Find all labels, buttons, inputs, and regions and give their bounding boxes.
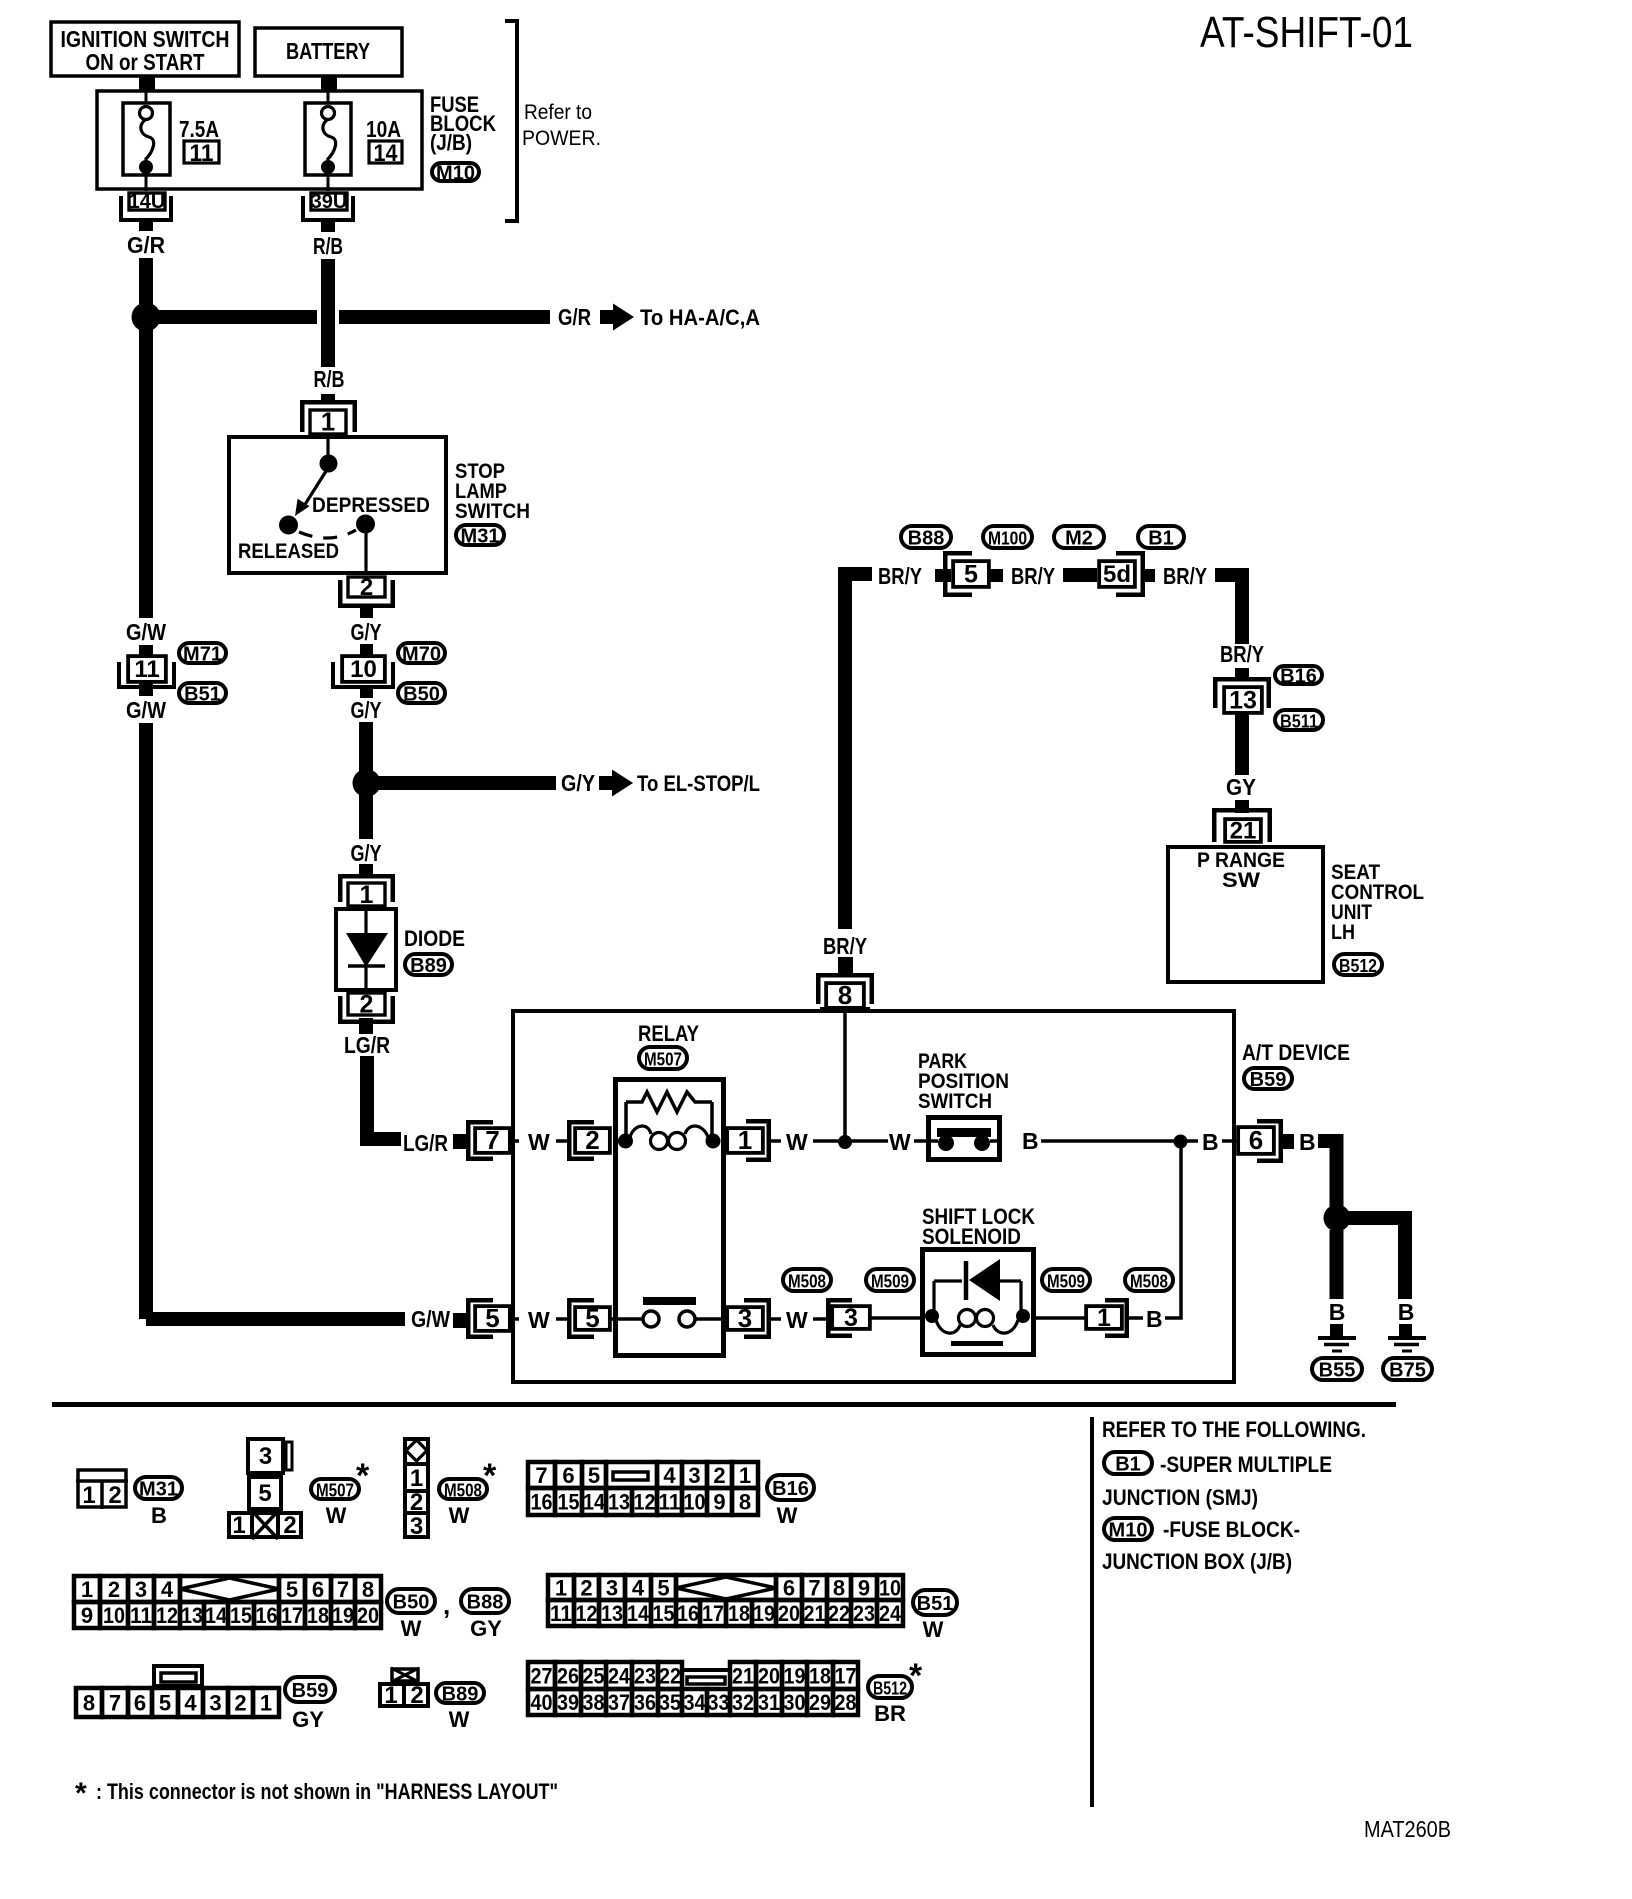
svg-text:5: 5 <box>286 1577 298 1602</box>
svg-text:B: B <box>1202 1129 1219 1155</box>
svg-text:18: 18 <box>307 1603 329 1628</box>
wire G/Y vertical to diode <box>359 722 373 839</box>
connector ref B59 oval <box>1244 1068 1292 1091</box>
svg-text:W: W <box>449 1503 470 1528</box>
wire W between connector 5 and relay pin 5 <box>511 1307 567 1333</box>
junction dot ground branch <box>1324 1205 1351 1232</box>
wire tab above diode connector 1 <box>359 864 373 876</box>
svg-text:B89: B89 <box>410 955 447 977</box>
svg-text:M509: M509 <box>1047 1271 1085 1292</box>
connector ref B511 oval <box>1275 710 1323 732</box>
svg-text:SWITCH: SWITCH <box>455 500 530 523</box>
label GY <box>1226 774 1256 800</box>
svg-text:35: 35 <box>659 1690 681 1715</box>
svg-text:7: 7 <box>808 1575 820 1600</box>
wire tab after connector 5 SMJ <box>990 569 1003 582</box>
svg-text:9: 9 <box>858 1575 870 1600</box>
label LG/R at A/T device <box>403 1130 448 1156</box>
svg-text:13: 13 <box>181 1603 203 1628</box>
svg-text:24: 24 <box>608 1663 631 1688</box>
label RELAY <box>638 1021 699 1046</box>
svg-text:B1: B1 <box>1115 1454 1141 1476</box>
label LG/R below diode <box>344 1032 390 1058</box>
connector ref B1 oval refer <box>1104 1452 1152 1476</box>
svg-text:W: W <box>786 1129 808 1155</box>
connector ref B16 oval bottom <box>767 1475 814 1500</box>
svg-text:7: 7 <box>535 1463 547 1488</box>
svg-text:B88: B88 <box>467 1592 504 1614</box>
svg-text:20: 20 <box>357 1603 379 1628</box>
svg-text:B: B <box>151 1503 167 1528</box>
svg-text:RELEASED: RELEASED <box>238 540 339 563</box>
relay coil and resistor <box>613 1092 721 1150</box>
svg-text:M100: M100 <box>988 528 1027 549</box>
svg-text:B: B <box>1022 1128 1039 1154</box>
svg-text:19: 19 <box>753 1601 775 1626</box>
label DEPRESSED <box>312 494 430 517</box>
svg-text:B89: B89 <box>442 1684 479 1706</box>
svg-text:POWER.: POWER. <box>522 127 601 150</box>
svg-text:5: 5 <box>657 1575 669 1600</box>
svg-text:*: * <box>75 1777 87 1810</box>
svg-text:2: 2 <box>360 574 373 601</box>
svg-text:M31: M31 <box>139 1479 178 1501</box>
label SHIFT LOCK SOLENOID <box>922 1204 1035 1249</box>
label A/T DEVICE <box>1242 1040 1350 1065</box>
svg-text:14: 14 <box>583 1489 606 1514</box>
connector ref M31 oval <box>456 525 504 548</box>
svg-text:33: 33 <box>708 1690 730 1715</box>
svg-text:20: 20 <box>778 1601 800 1626</box>
label GY under B88 <box>470 1616 502 1641</box>
connector ref M31 oval bottom <box>135 1477 182 1501</box>
label W under B51 <box>923 1617 944 1642</box>
svg-text:G/W: G/W <box>411 1306 450 1332</box>
label DIODE <box>404 926 465 951</box>
svg-text:3: 3 <box>209 1690 221 1715</box>
wire W between connector 7 and relay pin 2 <box>511 1129 567 1155</box>
svg-text:11: 11 <box>550 1601 572 1626</box>
inline connector 11 M71/B51 <box>119 655 174 687</box>
star M508 <box>483 1457 497 1495</box>
connector ref B55 oval <box>1312 1358 1362 1382</box>
svg-text:17: 17 <box>702 1601 724 1626</box>
svg-text:B51: B51 <box>184 684 221 706</box>
svg-text:20: 20 <box>758 1663 780 1688</box>
label GY under B59 <box>292 1707 324 1732</box>
connector face B89 <box>380 1668 428 1709</box>
svg-text:39U: 39U <box>311 191 348 213</box>
svg-text:19: 19 <box>332 1603 354 1628</box>
connector ref B89 oval <box>405 954 452 977</box>
svg-text:37: 37 <box>608 1690 630 1715</box>
ignition switch box <box>51 22 239 76</box>
connector ref B51 oval bottom <box>913 1590 957 1615</box>
wire W between relay pin 3 and M508 pin 3 <box>771 1307 826 1333</box>
svg-text:23: 23 <box>634 1663 656 1688</box>
star B512 <box>909 1657 923 1695</box>
svg-text:11: 11 <box>659 1489 681 1514</box>
label G/Y above diode <box>351 840 382 866</box>
svg-text:GY: GY <box>470 1616 502 1641</box>
svg-text:M71: M71 <box>183 644 222 666</box>
svg-text:13: 13 <box>601 1601 623 1626</box>
wire tab into stop lamp switch pin 1 <box>321 394 335 404</box>
svg-text:3: 3 <box>135 1577 147 1602</box>
svg-text:M508: M508 <box>788 1271 826 1292</box>
ground symbol B75 <box>1388 1324 1426 1351</box>
svg-text:2: 2 <box>585 1125 599 1155</box>
wire R/B vertical from 39U <box>321 222 335 367</box>
svg-text:5d: 5d <box>1103 561 1131 588</box>
connector ref B59 oval bottom <box>285 1677 335 1702</box>
connector 1 M508/M509 <box>1086 1300 1127 1336</box>
svg-text:4: 4 <box>663 1463 676 1488</box>
svg-text:W: W <box>786 1307 808 1333</box>
svg-text:B: B <box>1398 1299 1415 1325</box>
svg-text:AT-SHIFT-01: AT-SHIFT-01 <box>1200 8 1413 57</box>
svg-text:*: * <box>483 1457 497 1495</box>
label G/W below connector 11 <box>120 696 172 723</box>
connector ref B512 oval bottom <box>868 1676 912 1699</box>
svg-text:G/Y: G/Y <box>351 619 382 645</box>
wire from solenoid to connector 1 <box>1036 1316 1085 1320</box>
svg-text:14: 14 <box>627 1601 650 1626</box>
label R/B <box>307 232 349 259</box>
wire tab battery to fuse block <box>321 76 337 90</box>
svg-text:BR: BR <box>874 1701 906 1726</box>
svg-text:B: B <box>1146 1306 1163 1332</box>
svg-text:5: 5 <box>159 1690 171 1715</box>
svg-text:16: 16 <box>256 1603 278 1628</box>
svg-text:-FUSE BLOCK-: -FUSE BLOCK- <box>1163 1517 1300 1542</box>
label G/R <box>121 231 171 258</box>
wire BR/Y corner down to connector 8 <box>838 567 872 929</box>
svg-text:4: 4 <box>161 1577 174 1602</box>
seat control unit box <box>1168 847 1323 982</box>
connector 1 relay <box>727 1121 769 1160</box>
svg-text:G/Y: G/Y <box>351 840 382 866</box>
svg-text:M508: M508 <box>1130 1271 1168 1292</box>
svg-text:G/R: G/R <box>127 232 165 258</box>
svg-text:5: 5 <box>588 1463 600 1488</box>
svg-text:B55: B55 <box>1319 1360 1356 1382</box>
svg-text:3: 3 <box>410 1513 423 1540</box>
svg-text:8: 8 <box>838 980 852 1010</box>
separator line <box>52 1402 1396 1407</box>
label R/B above stop lamp switch <box>314 366 345 392</box>
svg-text:To EL-STOP/L: To EL-STOP/L <box>637 771 760 796</box>
svg-text:3: 3 <box>844 1304 858 1332</box>
svg-text:5: 5 <box>585 1303 599 1333</box>
svg-text:21: 21 <box>732 1663 754 1688</box>
stop lamp switch box M31 <box>229 437 446 573</box>
connector ref B50 oval bottom <box>387 1589 435 1614</box>
svg-text:1: 1 <box>260 1690 272 1715</box>
ground symbol B55 <box>1318 1324 1356 1351</box>
connector face B16 <box>528 1462 758 1515</box>
svg-text:DEPRESSED: DEPRESSED <box>312 494 430 517</box>
wire tab above connector 8 <box>838 957 853 976</box>
svg-text:1: 1 <box>410 1465 423 1492</box>
connector ref B75 oval <box>1383 1358 1432 1382</box>
svg-text:M507: M507 <box>644 1049 682 1070</box>
svg-text:22: 22 <box>659 1663 681 1688</box>
svg-text:B: B <box>1299 1129 1316 1155</box>
svg-text:1: 1 <box>81 1577 93 1602</box>
svg-text:LG/R: LG/R <box>344 1032 390 1058</box>
connector 5 relay <box>569 1300 610 1337</box>
junction dot solenoid return <box>1174 1135 1188 1149</box>
svg-text:13: 13 <box>608 1489 630 1514</box>
svg-text:1: 1 <box>321 407 335 437</box>
svg-text:BATTERY: BATTERY <box>286 38 370 64</box>
connector face M508 <box>403 1439 430 1540</box>
svg-text:M508: M508 <box>444 1480 482 1501</box>
label BR/Y above connector 13 <box>1220 641 1264 667</box>
connector ref B50 oval <box>398 683 445 706</box>
stop lamp switch internal contacts <box>279 435 375 575</box>
wire to solenoid <box>871 1316 920 1320</box>
label RELEASED <box>238 540 339 563</box>
connector face M507 <box>229 1439 301 1539</box>
svg-text:G/W: G/W <box>126 619 166 645</box>
arrow To EL-STOP/L <box>599 770 760 797</box>
connector 5d M2/B1 <box>1099 553 1143 595</box>
label G/R on branch <box>558 304 591 330</box>
svg-text:B50: B50 <box>393 1592 430 1614</box>
label G/W at A/T device <box>411 1306 450 1332</box>
svg-text:2: 2 <box>108 1482 121 1509</box>
svg-text:9: 9 <box>713 1489 725 1514</box>
label STOP LAMP SWITCH <box>455 460 530 523</box>
wire G/R horizontal to HA-A/C arrow <box>152 310 550 324</box>
svg-text:LG/R: LG/R <box>403 1130 448 1156</box>
svg-text:B75: B75 <box>1389 1360 1426 1382</box>
svg-text:18: 18 <box>809 1663 831 1688</box>
svg-text:14: 14 <box>374 140 399 167</box>
bracket Refer to POWER <box>505 21 601 221</box>
svg-text:39: 39 <box>557 1690 579 1715</box>
svg-text:GY: GY <box>1226 774 1256 800</box>
connector ref M508 oval right <box>1125 1269 1173 1292</box>
connector ref B88 oval bottom <box>461 1589 509 1614</box>
svg-text:29: 29 <box>809 1690 831 1715</box>
connector face M31 <box>76 1470 128 1509</box>
label BR/Y 2 <box>1011 563 1055 589</box>
svg-text:B512: B512 <box>1339 955 1377 976</box>
svg-text:16: 16 <box>531 1489 553 1514</box>
wire tab ignition to fuse block <box>139 76 155 90</box>
connector 2 stop lamp switch <box>340 574 393 606</box>
connector face B59 <box>76 1666 279 1717</box>
svg-text:31: 31 <box>758 1690 780 1715</box>
svg-text:16: 16 <box>677 1601 699 1626</box>
star M507 <box>356 1457 370 1495</box>
junction dot below connector 8 <box>838 1135 852 1149</box>
svg-text:B1: B1 <box>1148 528 1174 550</box>
svg-text:10: 10 <box>350 656 377 683</box>
label PARK POSITION SWITCH <box>918 1050 1009 1113</box>
svg-text:14U: 14U <box>129 191 166 213</box>
connector ref M508 oval left <box>783 1269 831 1292</box>
park position switch box <box>929 1118 1000 1160</box>
connector ref B88 oval <box>901 526 951 550</box>
connector ref M10 oval <box>432 163 479 185</box>
svg-text:W: W <box>449 1707 470 1732</box>
label FUSE BLOCK <box>1163 1517 1300 1542</box>
svg-text:G/R: G/R <box>558 304 591 330</box>
connector ref B1 oval <box>1138 526 1184 550</box>
svg-text:1: 1 <box>82 1482 95 1509</box>
svg-text:4: 4 <box>184 1690 197 1715</box>
svg-text:W: W <box>777 1503 798 1528</box>
svg-text:5: 5 <box>485 1303 499 1333</box>
svg-text:2: 2 <box>234 1690 246 1715</box>
svg-text:W: W <box>889 1129 911 1155</box>
svg-text:24: 24 <box>879 1601 902 1626</box>
solenoid diode and coil <box>925 1259 1030 1344</box>
svg-text:BR/Y: BR/Y <box>878 563 922 589</box>
arrow To HA-A/C,A <box>600 304 760 331</box>
svg-text:7.5A: 7.5A <box>179 116 219 142</box>
svg-text:25: 25 <box>583 1663 605 1688</box>
svg-text:REFER TO THE FOLLOWING.: REFER TO THE FOLLOWING. <box>1102 1417 1366 1442</box>
wire tab G/W into connector 5 <box>453 1313 467 1328</box>
svg-text:B511: B511 <box>1280 711 1318 732</box>
svg-text:3: 3 <box>688 1463 700 1488</box>
connector 6 A/T device <box>1238 1121 1281 1161</box>
wire from connector 8 to junction <box>843 1009 847 1141</box>
svg-text:1: 1 <box>555 1575 567 1600</box>
svg-text:SOLENOID: SOLENOID <box>922 1224 1021 1249</box>
svg-text:JUNCTION BOX (J/B): JUNCTION BOX (J/B) <box>1102 1549 1292 1574</box>
svg-text:2: 2 <box>580 1575 592 1600</box>
wire LG/R L-shape to connector 7 <box>360 1056 401 1146</box>
svg-text:SWITCH: SWITCH <box>918 1090 992 1113</box>
svg-text:B88: B88 <box>908 528 945 550</box>
svg-text:M31: M31 <box>461 526 500 548</box>
label JUNCTION BOX (J/B) <box>1102 1549 1292 1574</box>
connector 8 A/T device <box>818 975 872 1010</box>
connector 39U <box>303 191 353 220</box>
svg-text:6: 6 <box>312 1577 324 1602</box>
connector ref B51 oval <box>179 683 226 706</box>
connector 2 diode <box>340 990 393 1021</box>
svg-text:*: * <box>356 1457 370 1495</box>
label G/Y <box>351 619 382 645</box>
battery box <box>255 28 402 76</box>
label G/Y below connector 10 <box>351 697 382 723</box>
svg-text:2: 2 <box>283 1512 296 1539</box>
wire G/R vertical from 14U <box>139 222 153 1319</box>
label W under M508 <box>449 1503 470 1528</box>
svg-text:19: 19 <box>784 1663 806 1688</box>
svg-text:B50: B50 <box>403 684 440 706</box>
footnote harness layout <box>75 1777 558 1810</box>
svg-text:LH: LH <box>1331 921 1355 944</box>
connector 13 B16/B511 <box>1215 679 1269 714</box>
wire GY vertical <box>1235 712 1249 775</box>
svg-text:M10: M10 <box>1109 1520 1148 1542</box>
connector ref M507 oval <box>639 1047 687 1070</box>
svg-text:40: 40 <box>531 1690 553 1715</box>
wire BR/Y corner to B16 <box>1215 568 1249 644</box>
connector ref M100 oval <box>983 526 1032 549</box>
connector 3 relay <box>727 1300 769 1337</box>
connector 7 A/T device <box>468 1122 510 1159</box>
svg-text:1: 1 <box>232 1512 245 1539</box>
svg-text:B16: B16 <box>1280 666 1317 688</box>
svg-text:11: 11 <box>130 1603 152 1628</box>
svg-text:B: B <box>1329 1299 1346 1325</box>
wire tab above connector 21 <box>1235 800 1249 813</box>
svg-text:M507: M507 <box>316 1480 354 1501</box>
relay switch contacts <box>611 1297 726 1327</box>
wire G/Y horizontal to EL-STOP arrow <box>373 776 556 790</box>
svg-text:18: 18 <box>728 1601 750 1626</box>
connector ref M508 oval bottom <box>439 1479 487 1501</box>
svg-text:G/Y: G/Y <box>351 697 382 723</box>
svg-text:G/Y: G/Y <box>561 770 595 796</box>
svg-text:A/T DEVICE: A/T DEVICE <box>1242 1040 1350 1065</box>
svg-text:R/B: R/B <box>313 233 343 259</box>
svg-text:W: W <box>923 1617 944 1642</box>
svg-text:*: * <box>909 1657 923 1695</box>
vertical divider <box>1090 1417 1094 1807</box>
svg-text:28: 28 <box>835 1690 857 1715</box>
wire B to connector 6 <box>1187 1129 1237 1155</box>
fuse block M10 box <box>97 91 422 189</box>
connector ref M509 oval left <box>866 1269 914 1292</box>
wire B to ground B75 <box>1343 1211 1412 1299</box>
label B under M31 <box>151 1503 167 1528</box>
svg-text:G/W: G/W <box>126 697 166 723</box>
svg-text:W: W <box>528 1307 550 1333</box>
svg-text:12: 12 <box>576 1601 598 1626</box>
svg-text:22: 22 <box>828 1601 850 1626</box>
svg-text:6: 6 <box>562 1463 574 1488</box>
svg-text:36: 36 <box>634 1690 656 1715</box>
svg-text:11: 11 <box>190 140 214 167</box>
label G/W <box>120 618 172 645</box>
svg-text:30: 30 <box>784 1690 806 1715</box>
park position switch contacts <box>928 1128 1000 1151</box>
svg-text:DIODE: DIODE <box>404 926 465 951</box>
svg-text:8: 8 <box>833 1575 845 1600</box>
wire B thick to ground junction <box>1318 1134 1344 1218</box>
junction dot G/R branch <box>132 303 161 332</box>
label B after park switch <box>1022 1128 1174 1154</box>
svg-text:M2: M2 <box>1065 528 1093 550</box>
connector ref B16 oval <box>1275 666 1322 688</box>
svg-text:8: 8 <box>739 1489 751 1514</box>
connector ref M10 oval refer <box>1104 1518 1152 1542</box>
svg-text:B512: B512 <box>873 1678 907 1699</box>
svg-text:MAT260B: MAT260B <box>1364 1816 1451 1842</box>
svg-text:1: 1 <box>360 881 374 909</box>
svg-text:1: 1 <box>1097 1304 1111 1332</box>
svg-text:W: W <box>528 1129 550 1155</box>
svg-text:15: 15 <box>230 1603 252 1628</box>
svg-text:17: 17 <box>835 1663 857 1688</box>
svg-text:8: 8 <box>83 1690 95 1715</box>
label SEAT CONTROL UNIT LH <box>1331 861 1424 944</box>
svg-text:6: 6 <box>1249 1125 1263 1155</box>
label P RANGE SW <box>1197 849 1285 892</box>
wire tab below connector 2 <box>360 604 373 618</box>
wire B to ground B55 <box>1330 1230 1344 1299</box>
